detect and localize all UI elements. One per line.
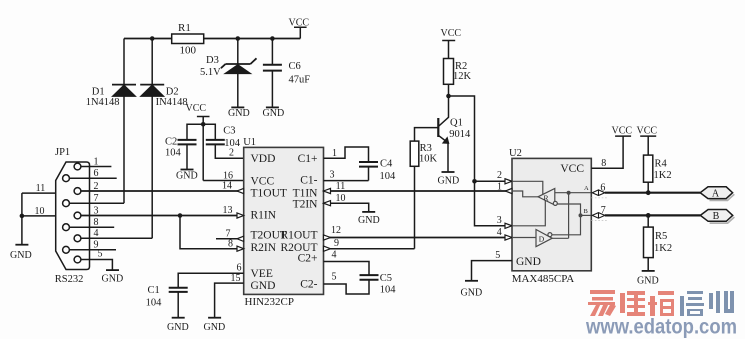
svg-text:15: 15 xyxy=(231,273,241,284)
svg-text:11: 11 xyxy=(336,181,346,192)
svg-text:10: 10 xyxy=(336,193,346,204)
pin 4 (JP1) / wire to D2 xyxy=(81,228,152,239)
svg-text:GND: GND xyxy=(10,250,32,261)
svg-text:104: 104 xyxy=(165,147,182,158)
power VCC (top rail) xyxy=(289,18,310,39)
svg-text:GND: GND xyxy=(516,256,541,268)
pin 7 T2OUT (U1) xyxy=(216,229,244,242)
capacitor C2 104 xyxy=(165,124,203,169)
wire U2 A internal / node A xyxy=(552,185,591,238)
node rail-D2 xyxy=(150,36,155,41)
wire shell to ground xyxy=(20,193,25,245)
wire control node to U2 RE/DE xyxy=(449,96,513,226)
ground (C2) xyxy=(176,170,198,182)
svg-text:1K2: 1K2 xyxy=(654,170,672,181)
pin 4 DI (U2) xyxy=(497,227,512,240)
svg-text:5: 5 xyxy=(495,250,500,261)
svg-text:104: 104 xyxy=(380,284,397,295)
power VCC (R4) xyxy=(637,126,658,156)
op-amp U1 HIN232CP body xyxy=(243,137,323,308)
svg-text:VCC: VCC xyxy=(612,126,633,137)
svg-text:R1: R1 xyxy=(178,22,191,34)
svg-text:VCC: VCC xyxy=(251,175,275,187)
svg-text:C6: C6 xyxy=(289,61,301,72)
wire U2 RE internal xyxy=(512,181,543,194)
svg-text:R4: R4 xyxy=(655,159,668,170)
diode D2 1N4148 xyxy=(140,39,187,108)
pin 15 GND (U1) / wire to ground xyxy=(215,273,244,318)
svg-text:2: 2 xyxy=(94,181,99,192)
pin 8 R2IN (U1) xyxy=(228,239,244,252)
svg-text:GND: GND xyxy=(204,322,226,333)
resistor R1 xyxy=(172,22,204,57)
svg-text:6: 6 xyxy=(237,263,242,274)
driver D triangle (U2 internal) xyxy=(536,230,552,247)
svg-text:3: 3 xyxy=(497,215,502,226)
svg-text:10K: 10K xyxy=(419,153,438,164)
ground (U2 pin5) xyxy=(461,281,483,299)
svg-text:GND: GND xyxy=(102,274,124,285)
svg-text:www.edatop.com: www.edatop.com xyxy=(585,316,737,339)
resistor R3 10K xyxy=(410,141,437,249)
pin 7 B (U2) port symbol xyxy=(592,205,608,221)
pin 6 (JP1) xyxy=(69,168,116,179)
svg-text:14: 14 xyxy=(222,181,232,192)
svg-text:IN4148: IN4148 xyxy=(156,97,188,108)
svg-text:1: 1 xyxy=(332,148,337,159)
pin 5 (JP1) / wire to ground xyxy=(81,248,113,270)
capacitor C1 104 xyxy=(146,285,188,318)
wire U2 DE internal xyxy=(512,201,545,226)
svg-text:VCC: VCC xyxy=(186,103,207,114)
svg-text:GND: GND xyxy=(228,108,250,119)
ground (T2IN) xyxy=(358,212,380,226)
svg-text:GND: GND xyxy=(461,288,483,299)
ground (U1 pin15) xyxy=(204,318,226,333)
node B/R5 xyxy=(646,213,651,218)
pin 3 C1- (U1) xyxy=(324,170,369,181)
svg-text:GND: GND xyxy=(438,176,460,187)
svg-text:D2: D2 xyxy=(166,86,179,97)
svg-text:R5: R5 xyxy=(655,231,667,242)
svg-text:VDD: VDD xyxy=(251,153,276,165)
ground (C1) xyxy=(167,318,189,333)
ground (JP1 pin5) xyxy=(102,270,124,284)
pin 16 VCC (U1) xyxy=(223,171,233,182)
svg-text:GND: GND xyxy=(263,108,285,119)
svg-text:C5: C5 xyxy=(380,273,392,284)
svg-text:5: 5 xyxy=(332,271,337,282)
svg-text:C2+: C2+ xyxy=(298,253,318,265)
svg-text:104: 104 xyxy=(380,171,397,182)
pin 1 (JP1) xyxy=(81,156,112,167)
svg-text:MAX485CPA: MAX485CPA xyxy=(512,273,575,285)
svg-text:C4: C4 xyxy=(380,159,393,170)
svg-text:C1+: C1+ xyxy=(298,153,318,165)
svg-text:JP1: JP1 xyxy=(55,147,70,158)
svg-text:T1OUT: T1OUT xyxy=(251,188,287,200)
resistor R5 1K2 xyxy=(644,215,673,271)
svg-text:VCC: VCC xyxy=(637,126,658,137)
pin 5 C2- (U1) xyxy=(332,271,337,282)
svg-text:12K: 12K xyxy=(453,71,472,82)
wire A line xyxy=(605,192,700,194)
pin 7 (JP1) / wire to D1 xyxy=(69,193,124,204)
svg-text:RS232: RS232 xyxy=(55,274,84,285)
svg-text:1K2: 1K2 xyxy=(654,243,672,254)
pin 3 DE (U2) xyxy=(497,215,512,228)
power VCC (U2 pin8) xyxy=(612,126,633,137)
svg-text:10: 10 xyxy=(35,206,45,217)
pin 13 R1IN (U1) xyxy=(223,205,244,218)
svg-text:R: R xyxy=(544,193,549,202)
ground (D3) xyxy=(228,107,250,119)
pin 11 T1IN (U1) / wire to U2 RO xyxy=(324,181,513,194)
svg-text:4: 4 xyxy=(332,250,337,261)
svg-text:A: A xyxy=(712,189,720,200)
node rail-C6 xyxy=(270,36,275,41)
svg-text:D: D xyxy=(539,234,545,243)
capacitor C3 104 xyxy=(203,124,244,158)
svg-text:C1: C1 xyxy=(148,285,160,296)
pin 2 RE (U2) xyxy=(497,170,512,184)
pin 6 A (U2) port symbol xyxy=(592,182,608,198)
svg-text:A: A xyxy=(584,185,589,192)
wire U2 DI internal xyxy=(512,237,536,239)
svg-text:2: 2 xyxy=(229,148,234,159)
svg-text:11: 11 xyxy=(36,183,46,194)
svg-text:3: 3 xyxy=(330,170,335,181)
pin 11 (JP1 shell) xyxy=(22,183,56,194)
pin 12 R1OUT (U1) / wire to U2 DI xyxy=(324,225,513,240)
svg-text:R3: R3 xyxy=(420,143,432,154)
svg-text:C1-: C1- xyxy=(300,175,317,187)
svg-text:VCC: VCC xyxy=(289,18,310,29)
svg-text:VCC: VCC xyxy=(441,28,462,39)
pin 2 VDD (U1) xyxy=(229,148,234,159)
capacitor C6 47uF xyxy=(263,39,310,108)
pin 6 VEE (U1) / wire to C1 xyxy=(178,263,244,288)
op-amp U2 MAX485CPA body xyxy=(509,148,591,285)
wire U2 RO internal xyxy=(512,191,538,197)
svg-text:4: 4 xyxy=(94,228,99,239)
svg-text:7: 7 xyxy=(94,193,99,204)
svg-text:1: 1 xyxy=(497,182,502,193)
svg-text:6: 6 xyxy=(600,182,605,193)
svg-text:104: 104 xyxy=(146,298,163,309)
pin 4 C2+ (U1) / capacitor C5 104 xyxy=(324,250,397,296)
pin 1 C1+ (U1) / capacitor C4 104 xyxy=(324,147,397,182)
svg-text:D3: D3 xyxy=(206,55,219,66)
svg-text:12: 12 xyxy=(331,225,341,236)
svg-text:B: B xyxy=(584,208,589,215)
watermark logo xyxy=(585,290,737,339)
pin 5 GND (U2) / wire to ground xyxy=(472,250,513,281)
svg-text:1N4148: 1N4148 xyxy=(86,97,120,108)
svg-text:U1: U1 xyxy=(243,137,256,148)
svg-text:GND: GND xyxy=(167,322,189,333)
svg-text:R2IN: R2IN xyxy=(251,242,277,254)
pin 9 (JP1) xyxy=(69,240,116,251)
pin 3 (JP1) / wire to U1 R1IN xyxy=(81,205,244,216)
ground (Q1) xyxy=(438,172,460,187)
svg-text:GND: GND xyxy=(637,276,659,287)
svg-text:VEE: VEE xyxy=(251,268,273,280)
pin 8 (JP1) xyxy=(69,217,114,228)
wire pin3 branch to U1 R2IN xyxy=(180,216,244,249)
svg-text:6: 6 xyxy=(94,168,99,179)
svg-text:C2: C2 xyxy=(165,137,177,148)
pin 2 (JP1) / wire to U1 T1OUT xyxy=(81,181,244,192)
svg-text:13: 13 xyxy=(223,205,233,216)
ground (JP1 shell) xyxy=(10,245,32,261)
svg-text:1: 1 xyxy=(94,156,99,167)
node R2/Q1 collector xyxy=(446,94,451,99)
svg-text:3: 3 xyxy=(94,205,99,216)
svg-text:5.1V: 5.1V xyxy=(200,67,221,78)
svg-text:9: 9 xyxy=(334,238,339,249)
transistor Q1 9014 xyxy=(415,96,472,172)
pin 9 R2OUT (U1) / wire to R3 xyxy=(324,238,415,251)
svg-text:R1IN: R1IN xyxy=(251,210,277,222)
wire U2 B internal / node B xyxy=(552,204,592,235)
svg-text:GND: GND xyxy=(251,280,276,292)
svg-text:8: 8 xyxy=(228,239,233,250)
svg-text:8: 8 xyxy=(94,217,99,228)
svg-text:R1OUT: R1OUT xyxy=(280,230,317,242)
diode D1 1N4148 xyxy=(86,39,136,108)
pin 8 VCC (U2) / wire to VCC xyxy=(591,136,623,169)
svg-text:C2-: C2- xyxy=(300,279,317,291)
resistor R2 12K xyxy=(444,59,472,97)
port B connector xyxy=(700,210,734,224)
pin 1 RO (U2) xyxy=(497,182,512,194)
zener diode D3 5.1V xyxy=(200,39,257,108)
wire D2 anode to JP1 pin4 row xyxy=(151,96,153,238)
node rail-D3 xyxy=(236,36,241,41)
svg-text:Q1: Q1 xyxy=(450,118,463,129)
pin 14 T1OUT (U1) xyxy=(222,181,244,194)
svg-text:4: 4 xyxy=(497,227,502,238)
receiver R triangle (U2 internal) xyxy=(538,189,557,206)
port A connector xyxy=(700,187,734,201)
pin 10 T2IN (U1) / wire to ground xyxy=(324,193,369,212)
svg-text:5: 5 xyxy=(98,248,103,259)
connector JP1 DB9 xyxy=(55,147,90,285)
svg-text:C3: C3 xyxy=(223,126,235,137)
node pin3 branch xyxy=(178,213,183,218)
resistor R4 1K2 xyxy=(644,155,672,193)
node A/R4 xyxy=(646,190,651,195)
svg-text:GND: GND xyxy=(358,215,380,226)
svg-text:D1: D1 xyxy=(92,86,105,97)
svg-text:47uF: 47uF xyxy=(289,75,311,86)
wire B line xyxy=(605,214,701,216)
svg-text:U2: U2 xyxy=(509,148,522,159)
svg-text:9014: 9014 xyxy=(449,129,471,140)
svg-text:VCC: VCC xyxy=(560,163,584,175)
power VCC (U1 node) xyxy=(186,103,210,181)
ground (R5) xyxy=(637,271,659,287)
ground (C6) xyxy=(263,107,285,119)
svg-text:GND: GND xyxy=(176,171,198,182)
svg-text:8: 8 xyxy=(601,158,606,169)
pin 10 (JP1 shell) xyxy=(22,206,56,217)
wire D1 anode to JP1 pin7 row xyxy=(123,96,125,203)
power VCC (R2) xyxy=(441,28,462,58)
svg-text:HIN232CP: HIN232CP xyxy=(245,296,295,308)
wire VCC to U1 pin16 xyxy=(203,180,244,182)
svg-text:B: B xyxy=(713,211,720,222)
wire VCC rail top xyxy=(124,38,300,40)
svg-text:2: 2 xyxy=(497,170,502,181)
svg-text:T2IN: T2IN xyxy=(293,199,319,211)
svg-text:100: 100 xyxy=(180,45,197,57)
